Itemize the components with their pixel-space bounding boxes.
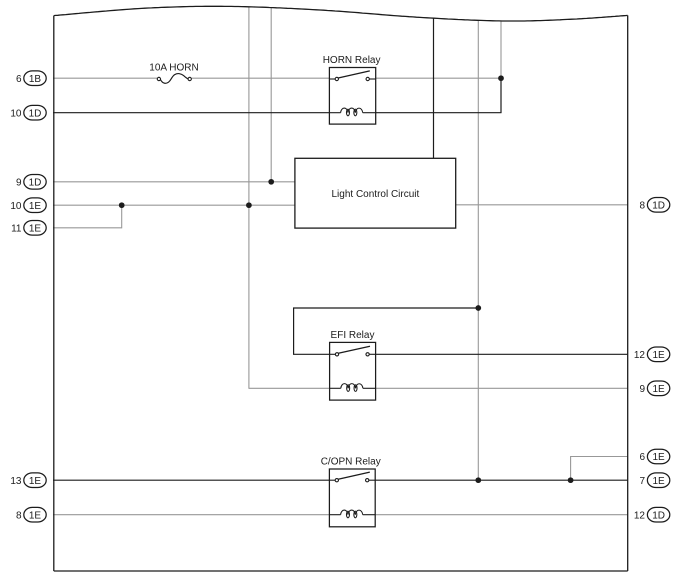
node EFI feed node: [475, 305, 481, 311]
svg-text:6: 6: [639, 452, 645, 463]
connector 10 1E: [10, 198, 46, 213]
connector 12 1E: [634, 347, 670, 362]
wire 10(1D) to HORN relay coil: [53, 112, 329, 114]
connector 12 1D: [634, 507, 670, 522]
node C/OPN switch node: [475, 477, 481, 483]
wire 9(1D) to Light Control Circuit: [53, 181, 295, 183]
svg-text:8: 8: [16, 510, 22, 521]
wire riser coil-return lower: [500, 78, 502, 113]
connector 8 1E: [16, 507, 46, 522]
svg-text:EFI Relay: EFI Relay: [331, 330, 375, 341]
svg-text:1E: 1E: [652, 452, 665, 463]
connector 13 1E: [10, 473, 46, 488]
connector 11 1E: [11, 221, 46, 236]
svg-text:HORN Relay: HORN Relay: [323, 55, 381, 66]
relay EFI Relay: [330, 330, 376, 400]
wire vertical bus to EFI coil: [248, 7, 250, 389]
wire 8(1E) to C/OPN relay coil: [53, 514, 329, 516]
svg-text:12: 12: [634, 510, 646, 521]
wire 11(1E) horizontal: [53, 227, 122, 229]
connector 9 1D: [16, 175, 46, 190]
block Light Control Circuit U1: [295, 158, 456, 228]
wire HORN relay switch output to node: [376, 77, 501, 79]
connector 9 1E: [639, 381, 669, 396]
frame wavy top edge: [54, 6, 628, 21]
svg-text:10A HORN: 10A HORN: [149, 63, 198, 74]
frame right edge: [627, 15, 629, 571]
wire Light Control Circuit to 8(1D): [456, 204, 628, 206]
svg-text:1E: 1E: [29, 201, 42, 212]
wire EFI relay switch feed elbow: [294, 308, 479, 354]
wire EFI relay switch to 12(1E): [376, 353, 628, 355]
svg-text:1E: 1E: [652, 476, 665, 487]
svg-text:1E: 1E: [652, 350, 665, 361]
svg-text:7: 7: [639, 476, 645, 487]
node 10(1E)/vertical bus junction: [246, 202, 252, 208]
svg-text:1B: 1B: [29, 74, 42, 85]
svg-text:8: 8: [639, 200, 645, 211]
wire vertical drop to Light Control Circuit: [433, 18, 435, 158]
svg-text:13: 13: [10, 476, 22, 487]
node 9(1D)/vertical junction: [268, 179, 274, 185]
svg-text:1D: 1D: [29, 177, 42, 188]
svg-text:10: 10: [10, 201, 22, 212]
svg-text:9: 9: [639, 384, 645, 395]
svg-text:1E: 1E: [29, 223, 42, 234]
svg-text:1E: 1E: [29, 510, 42, 521]
frame bottom edge: [54, 570, 628, 572]
svg-text:1E: 1E: [29, 476, 42, 487]
node HORN switch output node: [498, 75, 504, 81]
node 6(1E)/7(1E) node: [568, 477, 574, 483]
svg-text:11: 11: [11, 223, 22, 234]
connector 10 1D: [10, 105, 46, 120]
connector 6 1E: [639, 449, 669, 464]
relay HORN Relay: [323, 55, 381, 124]
svg-text:C/OPN Relay: C/OPN Relay: [321, 457, 381, 468]
wire EFI relay coil left: [249, 387, 330, 389]
wire 6(1E) branch elbow: [571, 457, 628, 481]
wire 10(1E) to Light Control Circuit: [53, 204, 295, 206]
wire 11(1E) riser to 10(1E): [121, 205, 123, 229]
wire C/OPN relay switch to 7(1E): [375, 479, 628, 481]
connector 6 1B: [16, 71, 46, 86]
svg-text:1D: 1D: [652, 510, 665, 521]
svg-text:10: 10: [10, 108, 22, 119]
svg-text:6: 6: [16, 74, 22, 85]
wire C/OPN relay coil to 12(1D): [375, 514, 628, 516]
svg-text:1D: 1D: [29, 108, 42, 119]
connector 8 1D: [639, 198, 669, 213]
wire vertical bus to C/OPN switch: [477, 20, 479, 480]
node 11(1E)/10(1E) junction: [119, 202, 125, 208]
svg-text:1D: 1D: [652, 200, 665, 211]
wire HORN relay coil to riser: [376, 112, 501, 114]
wire riser upper to top edge: [500, 21, 502, 78]
svg-text:1E: 1E: [652, 384, 665, 395]
wire EFI relay coil to 9(1E): [376, 387, 628, 389]
wire fuse to HORN relay switch: [191, 77, 329, 79]
wire 13(1E) to C/OPN relay switch: [53, 479, 329, 481]
svg-text:12: 12: [634, 350, 646, 361]
wire 6(1B) to fuse: [53, 77, 157, 79]
fuse 10A HORN: [149, 63, 198, 84]
frame left edge: [53, 16, 55, 571]
wire vertical drop to 9(1D): [270, 8, 272, 182]
svg-text:Light Control Circuit: Light Control Circuit: [331, 189, 419, 200]
svg-text:9: 9: [16, 177, 22, 188]
relay C/OPN Relay: [321, 457, 381, 527]
connector 7 1E: [639, 473, 669, 488]
